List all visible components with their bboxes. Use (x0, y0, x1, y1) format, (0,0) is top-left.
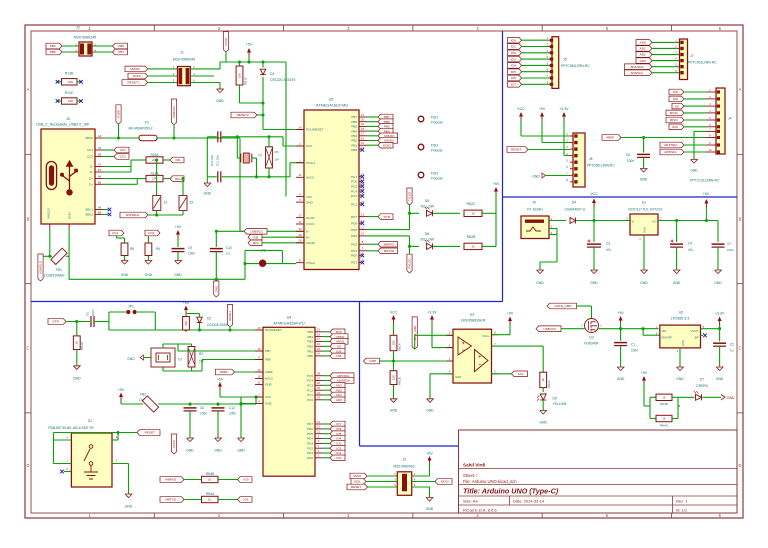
svg-text:PD6: PD6 (307, 427, 313, 431)
svg-text:AD1: AD1 (640, 47, 646, 51)
svg-text:20: 20 (258, 368, 261, 372)
svg-text:GND: GND (532, 175, 540, 179)
svg-text:C2: C2 (730, 343, 734, 347)
svg-text:18: 18 (258, 374, 261, 378)
svg-text:GND: GND (676, 377, 684, 381)
svg-text:C1: C1 (631, 343, 635, 347)
svg-text:23: 23 (317, 396, 320, 400)
svg-text:PC0: PC0 (306, 144, 312, 148)
svg-text:1K: 1K (208, 498, 211, 502)
svg-text:19: 19 (361, 122, 364, 126)
svg-text:IO4: IO4 (511, 64, 516, 68)
svg-text:PB6: PB6 (118, 44, 124, 48)
svg-text:R3: R3 (275, 150, 279, 154)
svg-text:MOSI: MOSI (441, 480, 449, 484)
svg-text:U5: U5 (329, 98, 334, 102)
svg-text:C: C (738, 346, 741, 351)
svg-text:PB6: PB6 (265, 358, 271, 362)
svg-text:S1: S1 (88, 419, 92, 423)
svg-text:PD2: PD2 (351, 242, 357, 246)
svg-text:FB1: FB1 (56, 268, 62, 272)
svg-text:UVCC: UVCC (306, 222, 315, 226)
svg-text:A5: A5 (98, 146, 102, 150)
svg-text:+3.3V: +3.3V (427, 311, 437, 315)
svg-text:Fiducial: Fiducial (431, 149, 443, 153)
svg-text:22R: 22R (68, 99, 73, 103)
svg-text:PD3: PD3 (351, 261, 357, 265)
svg-text:C5: C5 (86, 312, 90, 316)
svg-text:PJ-102AH: PJ-102AH (527, 208, 543, 212)
svg-text:J7: J7 (690, 54, 694, 58)
svg-text:PB1: PB1 (351, 143, 357, 147)
svg-text:C: C (26, 346, 29, 351)
svg-text:1M: 1M (275, 158, 280, 162)
svg-text:J5: J5 (563, 58, 567, 62)
svg-text:J2: J2 (76, 26, 80, 30)
svg-text:PB5: PB5 (351, 125, 357, 129)
svg-text:PPTC061LFBN-RC: PPTC061LFBN-RC (688, 61, 717, 65)
svg-text:XTAL2: XTAL2 (306, 261, 315, 265)
svg-text:J6: J6 (66, 117, 70, 121)
svg-text:SCL: SCL (518, 372, 524, 376)
svg-text:SCK: SCK (354, 480, 361, 484)
svg-text:VO: VO (652, 220, 657, 224)
svg-text:AREF: AREF (606, 136, 614, 140)
svg-text:IO8: IO8 (673, 90, 678, 94)
svg-text:27: 27 (317, 376, 320, 380)
svg-text:XTAL1: XTAL1 (306, 161, 315, 165)
svg-text:GND: GND (216, 99, 224, 103)
svg-text:M8RXD: M8RXD (165, 478, 177, 482)
svg-text:32: 32 (299, 173, 302, 177)
svg-text:100n: 100n (727, 248, 734, 252)
svg-text:VOUT: VOUT (690, 329, 698, 333)
svg-text:15: 15 (361, 141, 364, 145)
svg-text:IO0: IO0 (244, 478, 249, 482)
svg-text:PD2: PD2 (307, 446, 313, 450)
svg-text:GND: GND (673, 281, 681, 285)
svg-text:Rev: 1: Rev: 1 (676, 499, 688, 504)
svg-text:A: A (27, 87, 30, 92)
svg-text:IO7: IO7 (511, 83, 516, 87)
svg-text:USBVCC: USBVCC (543, 327, 557, 331)
svg-text:IO2: IO2 (336, 446, 341, 450)
svg-text:1K: 1K (662, 395, 665, 399)
svg-text:GND: GND (727, 396, 735, 400)
svg-text:VUSB: VUSB (117, 110, 121, 118)
svg-text:SBU1: SBU1 (85, 208, 93, 212)
svg-text:Fiducial: Fiducial (431, 121, 443, 125)
svg-text:RN4B: RN4B (206, 472, 215, 476)
svg-text:JP2: JP2 (260, 249, 266, 253)
svg-text:10: 10 (361, 232, 364, 236)
svg-text:CC2: CC2 (148, 231, 154, 235)
svg-text:GND: GND (643, 227, 647, 233)
svg-text:RN2A: RN2A (547, 380, 551, 388)
svg-text:20: 20 (361, 118, 364, 122)
svg-text:GND: GND (214, 285, 218, 293)
svg-text:J1: J1 (180, 51, 184, 55)
svg-text:AD2: AD2 (336, 388, 342, 392)
svg-text:M8TXD: M8TXD (165, 498, 176, 502)
svg-text:IO8: IO8 (336, 354, 341, 358)
svg-text:A4: A4 (98, 134, 102, 138)
svg-text:PB4: PB4 (307, 335, 313, 339)
svg-text:PC5: PC5 (351, 185, 357, 189)
svg-text:D6: D6 (425, 232, 429, 236)
svg-text:1u: 1u (730, 349, 734, 353)
svg-text:B6: B6 (98, 180, 102, 184)
svg-text:A8: A8 (98, 206, 102, 210)
svg-text:C13 22p: C13 22p (210, 155, 214, 166)
svg-text:D2: D2 (207, 317, 211, 321)
svg-text:R2: R2 (199, 352, 203, 356)
svg-text:RD+: RD+ (175, 177, 181, 181)
svg-text:29: 29 (299, 233, 302, 237)
svg-text:DTR: DTR (53, 320, 60, 324)
svg-text:AREF: AREF (220, 370, 228, 374)
svg-text:CC2: CC2 (120, 155, 126, 159)
svg-text:PD1: PD1 (307, 451, 313, 455)
svg-text:ATMEGA328P-PU: ATMEGA328P-PU (273, 322, 304, 326)
svg-text:RESET: RESET (351, 485, 361, 489)
svg-text:+5V: +5V (617, 311, 624, 315)
svg-text:GND: GND (145, 273, 153, 277)
svg-text:PD0: PD0 (307, 456, 313, 460)
svg-text:PC7: PC7 (351, 175, 357, 179)
svg-text:1K: 1K (471, 245, 474, 249)
svg-text:YELLOW: YELLOW (553, 402, 568, 406)
svg-text:PD3: PD3 (307, 442, 313, 446)
svg-text:U3: U3 (470, 313, 475, 317)
svg-text:USHIELD: USHIELD (39, 260, 43, 274)
svg-text:13: 13 (317, 420, 320, 424)
svg-text:+5V: +5V (703, 192, 710, 196)
svg-text:C12: C12 (229, 406, 235, 410)
svg-text:R13C: R13C (65, 91, 74, 95)
svg-text:RESET2: RESET2 (128, 81, 140, 85)
svg-text:IO6: IO6 (511, 76, 516, 80)
svg-text:RESET: RESET (511, 148, 521, 152)
svg-text:B: B (739, 216, 742, 221)
svg-text:RN4B: RN4B (660, 402, 668, 406)
svg-text:IO3: IO3 (336, 442, 341, 446)
svg-text:RN4C: RN4C (660, 423, 669, 427)
svg-text:PB6: PB6 (351, 120, 357, 124)
svg-text:IO4: IO4 (336, 437, 341, 441)
svg-text:GND: GND (681, 340, 685, 346)
svg-text:21: 21 (258, 380, 261, 384)
svg-text:GND: GND (125, 505, 133, 509)
svg-text:AD3: AD3 (336, 384, 342, 388)
svg-text:+3.3V: +3.3V (715, 312, 725, 316)
svg-text:GND: GND (174, 273, 182, 277)
svg-text:CMP: CMP (369, 359, 376, 363)
svg-text:PB0: PB0 (351, 148, 357, 152)
svg-text:ATMEGA16U2-MU: ATMEGA16U2-MU (316, 104, 348, 108)
svg-text:CC1: CC1 (120, 148, 126, 152)
svg-text:GND: GND (186, 449, 194, 453)
svg-text:PB4: PB4 (50, 44, 56, 48)
svg-text:Y3: Y3 (178, 358, 182, 362)
svg-text:GND: GND (390, 409, 398, 413)
svg-text:D+: D+ (306, 235, 310, 239)
svg-text:AD5/SCL: AD5/SCL (664, 150, 677, 154)
svg-text:YELLOW: YELLOW (420, 204, 435, 208)
svg-text:D: D (26, 463, 29, 468)
svg-text:Z2: Z2 (190, 201, 194, 205)
svg-text:PD6: PD6 (351, 222, 357, 226)
svg-text:SBU2: SBU2 (85, 213, 93, 217)
svg-text:R5: R5 (130, 247, 134, 251)
svg-text:FDN340P: FDN340P (584, 342, 599, 346)
svg-text:GND: GND (306, 200, 314, 204)
svg-text:Y2: Y2 (258, 154, 262, 158)
svg-text:FID2: FID2 (431, 144, 438, 148)
svg-text:1K2@100MHz: 1K2@100MHz (44, 274, 65, 278)
svg-text:100n: 100n (229, 412, 236, 416)
svg-text:AREF: AREF (265, 370, 273, 374)
svg-text:SCK: SCK (672, 125, 679, 129)
svg-text:PD4: PD4 (307, 437, 313, 441)
svg-text:18: 18 (361, 127, 364, 131)
svg-text:MISO: MISO (353, 474, 362, 478)
svg-text:D5: D5 (425, 199, 429, 203)
svg-text:DTR2: DTR2 (224, 38, 228, 46)
svg-text:AD4/SDA: AD4/SDA (337, 379, 351, 383)
svg-text:VBUS: VBUS (85, 136, 93, 140)
svg-text:PB3: PB3 (351, 134, 357, 138)
svg-text:D: D (738, 463, 741, 468)
svg-text:IO2: IO2 (511, 51, 516, 55)
svg-text:+5V: +5V (217, 378, 224, 382)
svg-text:AD5/SCL: AD5/SCL (630, 71, 643, 75)
svg-text:21: 21 (361, 113, 364, 117)
svg-text:VCC+: VCC+ (482, 334, 490, 338)
svg-text:+5V: +5V (183, 301, 190, 305)
svg-text:CC1: CC1 (87, 148, 93, 152)
svg-text:PB7: PB7 (351, 115, 357, 119)
svg-text:26: 26 (317, 381, 320, 385)
svg-text:RN2B: RN2B (467, 235, 476, 239)
svg-text:MISO: MISO (670, 118, 679, 122)
svg-text:GND: GND (237, 449, 245, 453)
svg-text:PB0: PB0 (307, 354, 313, 358)
svg-text:GND: GND (455, 375, 461, 379)
svg-text:PD7: PD7 (351, 215, 357, 219)
svg-text:C3: C3 (606, 242, 610, 246)
svg-text:IO9: IO9 (336, 349, 341, 353)
svg-text:Size: A4: Size: A4 (463, 499, 478, 504)
svg-text:13: 13 (361, 212, 364, 216)
svg-text:MOSI: MOSI (670, 111, 678, 115)
svg-text:MISO2: MISO2 (130, 67, 140, 71)
svg-text:TXLED: TXLED (408, 191, 412, 202)
svg-text:11: 11 (361, 225, 364, 229)
svg-text:M20-9980249: M20-9980249 (74, 36, 96, 40)
svg-text:IO9: IO9 (673, 97, 678, 101)
svg-text:A6: A6 (98, 175, 102, 179)
svg-text:24: 24 (317, 391, 320, 395)
svg-text:AD5/SCL: AD5/SCL (337, 374, 350, 378)
svg-text:PD5: PD5 (307, 432, 313, 436)
svg-text:C11 22p: C11 22p (216, 155, 220, 166)
svg-text:RSHIELD: RSHIELD (126, 213, 140, 217)
svg-text:Sheet: /: Sheet: / (463, 473, 478, 478)
svg-text:29: 29 (258, 326, 261, 330)
svg-text:33: 33 (299, 259, 302, 263)
svg-text:19: 19 (317, 328, 320, 332)
svg-text:CC2: CC2 (87, 155, 93, 159)
svg-text:TS08-887-50-BK-180-6-SMT-TR: TS08-887-50-BK-180-6-SMT-TR (48, 426, 95, 430)
svg-text:CR1220-S01575: CR1220-S01575 (270, 78, 295, 82)
svg-text:GND: GND (426, 507, 434, 511)
svg-text:16: 16 (361, 136, 364, 140)
svg-text:M20-9980049: M20-9980049 (173, 58, 195, 62)
svg-text:PD0: PD0 (351, 254, 357, 258)
svg-text:D7: D7 (700, 378, 704, 382)
svg-text:GREEN: GREEN (696, 384, 708, 388)
svg-text:+5V: +5V (507, 312, 514, 316)
svg-text:PC4: PC4 (307, 379, 313, 383)
svg-text:PD1: PD1 (351, 249, 357, 253)
svg-text:NCP1117-5.0_SOT223: NCP1117-5.0_SOT223 (628, 208, 662, 212)
svg-text:GND: GND (265, 402, 273, 406)
svg-text:B: B (27, 216, 30, 221)
svg-text:15: 15 (317, 347, 320, 351)
svg-text:RESET2: RESET2 (237, 113, 249, 117)
svg-text:UCAP: UCAP (306, 216, 314, 220)
svg-text:+5V: +5V (539, 107, 546, 111)
svg-text:R4: R4 (156, 247, 160, 251)
svg-text:AD0: AD0 (336, 398, 342, 402)
svg-text:100n: 100n (627, 159, 634, 163)
svg-text:10: 10 (258, 347, 261, 351)
svg-text:PC5: PC5 (307, 374, 313, 378)
svg-text:SCK2: SCK2 (133, 74, 141, 78)
svg-text:D+: D+ (89, 177, 93, 181)
svg-text:FID1: FID1 (431, 116, 438, 120)
svg-text:27: 27 (299, 213, 302, 217)
svg-text:GND: GND (716, 377, 724, 381)
svg-text:C10: C10 (226, 246, 232, 250)
svg-text:1K: 1K (75, 341, 79, 345)
svg-text:C8: C8 (626, 153, 630, 157)
svg-text:SS: SS (337, 345, 341, 349)
svg-text:10K: 10K (184, 321, 188, 326)
svg-text:GATE_CMD: GATE_CMD (555, 304, 573, 308)
svg-text:PB3: PB3 (307, 340, 313, 344)
svg-text:17: 17 (361, 132, 364, 136)
svg-text:IO5: IO5 (336, 432, 341, 436)
svg-text:10: 10 (709, 148, 712, 152)
svg-text:10K: 10K (237, 73, 241, 78)
svg-text:RD-: RD- (176, 158, 182, 162)
svg-text:AD3: AD3 (640, 59, 646, 63)
svg-text:CGRA4007-G: CGRA4007-G (564, 208, 585, 212)
svg-text:IO6: IO6 (336, 427, 341, 431)
svg-text:USB_C_Receptacle_USB2.0_16P: USB_C_Receptacle_USB2.0_16P (36, 123, 90, 127)
svg-text:AD4/SDA: AD4/SDA (630, 65, 644, 69)
svg-text:1u: 1u (226, 252, 230, 256)
svg-text:B5: B5 (98, 153, 102, 157)
svg-text:PB2: PB2 (351, 139, 357, 143)
svg-text:GND: GND (714, 281, 722, 285)
svg-text:GND: GND (214, 449, 222, 453)
svg-text:VCC: VCC (517, 107, 525, 111)
svg-text:PCL//RESET: PCL//RESET (306, 128, 324, 132)
svg-text:PC4: PC4 (351, 189, 357, 193)
svg-text:GND: GND (265, 383, 273, 387)
svg-text:+5V: +5V (175, 225, 182, 229)
svg-text:GND: GND (690, 169, 698, 173)
svg-text:LP2985-3.3: LP2985-3.3 (671, 317, 690, 321)
svg-text:RN2C: RN2C (467, 202, 476, 206)
svg-text:M8RXD: M8RXD (384, 242, 396, 246)
svg-text:GND: GND (536, 281, 544, 285)
svg-text:AD4/SDA: AD4/SDA (664, 143, 678, 147)
svg-text:PB4: PB4 (351, 129, 357, 133)
svg-text:D+: D+ (89, 183, 93, 187)
svg-text:RN1B: RN1B (398, 377, 402, 385)
svg-text:PC1: PC1 (307, 393, 313, 397)
svg-text:R13B: R13B (65, 72, 74, 76)
svg-text:D4: D4 (572, 201, 576, 205)
svg-text:U4: U4 (287, 316, 292, 320)
svg-text:GND: GND (617, 377, 625, 381)
svg-text:47u: 47u (688, 248, 694, 252)
svg-text:47u: 47u (606, 248, 612, 252)
svg-text:RN1C: RN1C (244, 76, 248, 85)
svg-text:AVCC: AVCC (172, 439, 176, 448)
svg-text:AD2: AD2 (640, 53, 646, 57)
svg-text:VI: VI (632, 220, 635, 224)
svg-text:PC0: PC0 (307, 398, 313, 402)
svg-text:GND: GND (426, 409, 434, 413)
svg-text:PC3: PC3 (307, 384, 313, 388)
svg-text:28: 28 (317, 372, 320, 376)
svg-text:Date: 2024-32-14: Date: 2024-32-14 (513, 499, 545, 504)
svg-text:100n: 100n (188, 252, 195, 256)
svg-text:JP1: JP1 (128, 305, 134, 309)
svg-text:SCK2: SCK2 (383, 143, 391, 147)
svg-text:12: 12 (317, 425, 320, 429)
svg-text:M8TXD: M8TXD (384, 249, 395, 253)
svg-text:25: 25 (317, 386, 320, 390)
svg-text:+3.3V: +3.3V (559, 107, 569, 111)
svg-text:PB2: PB2 (307, 345, 313, 349)
svg-text:IO1: IO1 (244, 498, 249, 502)
svg-text:D3: D3 (270, 72, 274, 76)
svg-text:1K: 1K (208, 478, 211, 482)
svg-text:B8: B8 (98, 211, 102, 215)
svg-text:MOSI: MOSI (336, 340, 344, 344)
svg-text:PB5: PB5 (50, 50, 56, 54)
svg-text:11: 11 (317, 430, 320, 434)
svg-text:IO0: IO0 (336, 456, 341, 460)
svg-text:GND: GND (204, 192, 212, 196)
svg-text:+5V: +5V (246, 43, 253, 47)
svg-text:AD0: AD0 (640, 41, 646, 45)
svg-text:C6: C6 (200, 406, 204, 410)
svg-text:PB5: PB5 (307, 330, 313, 334)
svg-text:D9: D9 (553, 397, 557, 401)
svg-text:File: Arduino UNO.kicad_sch: File: Arduino UNO.kicad_sch (463, 479, 517, 484)
svg-text:RESET: RESET (145, 431, 155, 435)
svg-text:F2: F2 (145, 121, 149, 125)
svg-text:GND: GND (127, 357, 135, 361)
svg-text:U2: U2 (679, 311, 684, 315)
